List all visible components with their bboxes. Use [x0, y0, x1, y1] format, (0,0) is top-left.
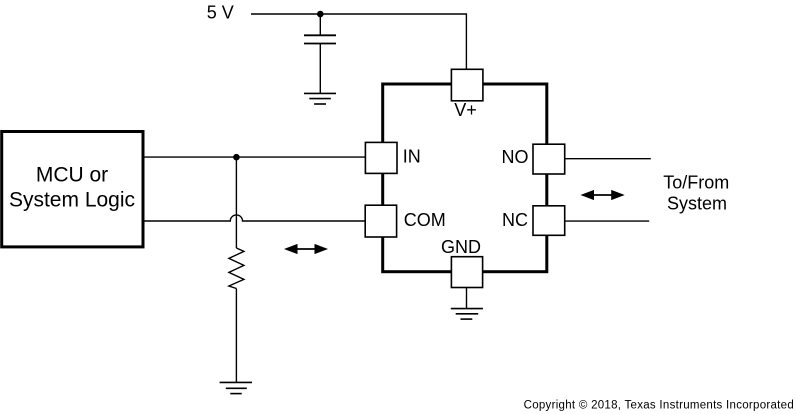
svg-text:MCU or: MCU or — [36, 163, 108, 186]
resistor R1 — [229, 248, 244, 289]
svg-text:NO: NO — [502, 147, 529, 167]
junction dot at capacitor tap — [317, 11, 324, 18]
pin NC — [533, 206, 565, 236]
pin IN — [365, 142, 397, 173]
net label 5V — [207, 2, 234, 22]
wire GND pin to ground — [466, 288, 468, 309]
svg-text:NC: NC — [502, 210, 528, 230]
svg-text:COM: COM — [404, 210, 446, 230]
ground (IC GND) — [451, 309, 483, 320]
capacitor C1 — [304, 14, 336, 93]
wire junction to resistor — [235, 157, 237, 248]
svg-text:5 V: 5 V — [207, 2, 234, 22]
svg-text:IN: IN — [403, 147, 421, 167]
pin GND — [451, 257, 482, 288]
wire 5V supply to V+ pin — [251, 14, 466, 69]
svg-text:GND: GND — [441, 237, 481, 257]
pin NO — [533, 144, 565, 174]
wire resistor to ground — [235, 289, 237, 383]
bidirectional arrow (COM side) — [284, 244, 328, 254]
pin COM — [365, 205, 396, 237]
pin label V+ — [454, 100, 477, 120]
wire MCU to COM (with hop) — [143, 215, 365, 221]
bidirectional arrow (NC side) — [581, 190, 625, 200]
ground (capacitor) — [304, 93, 336, 104]
wire NO output — [565, 158, 651, 160]
pin label NC — [502, 210, 528, 230]
svg-text:To/From: To/From — [663, 172, 729, 192]
MCU label — [9, 163, 135, 211]
svg-text:Copyright © 2018, Texas Instru: Copyright © 2018, Texas Instruments Inco… — [524, 399, 794, 411]
MCU block — [2, 132, 143, 247]
junction dot at resistor tap — [233, 154, 240, 161]
wire MCU to IN — [143, 156, 365, 158]
ground (resistor) — [220, 382, 252, 393]
pin label COM — [404, 210, 446, 230]
svg-text:V+: V+ — [454, 100, 477, 120]
wire NC output — [565, 220, 650, 222]
svg-text:System Logic: System Logic — [9, 189, 135, 212]
copyright notice — [524, 399, 794, 411]
annotation To/From System — [663, 172, 729, 213]
pin label IN — [403, 147, 421, 167]
IC U1 body — [383, 84, 547, 272]
pin V+ — [451, 69, 483, 101]
svg-text:System: System — [667, 194, 727, 214]
pin label GND — [441, 237, 481, 257]
pin label NO — [502, 147, 529, 167]
